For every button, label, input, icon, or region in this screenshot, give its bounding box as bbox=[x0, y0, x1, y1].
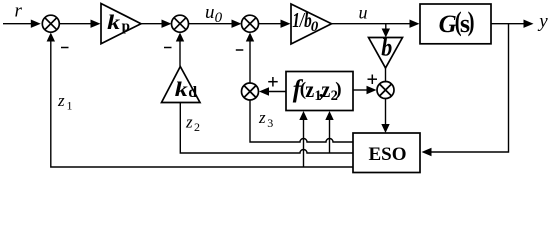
wire S1 to kp bbox=[59, 23, 91, 25]
wire z1 from ESO to S1 bbox=[51, 41, 353, 167]
wire S2 to S3 bbox=[189, 23, 233, 25]
svg-text:0: 0 bbox=[311, 19, 319, 35]
summing junction S4 bbox=[377, 82, 394, 99]
svg-text:r: r bbox=[15, 1, 23, 22]
wire kp to S2 bbox=[141, 23, 163, 25]
wire S5 up to S3 bbox=[249, 41, 251, 83]
plus sign at S5 bbox=[268, 77, 278, 87]
plus sign at S4 bbox=[368, 75, 378, 85]
svg-text:k: k bbox=[107, 10, 120, 34]
svg-text:z: z bbox=[321, 77, 330, 102]
wire feedback down from y branch bbox=[431, 24, 509, 152]
wire f to S5 bbox=[268, 91, 287, 93]
svg-text:ESO: ESO bbox=[369, 144, 407, 165]
block G(s) bbox=[420, 4, 491, 44]
svg-text:z: z bbox=[57, 91, 65, 110]
wire S4 down to ESO bbox=[385, 99, 387, 125]
wire r input bbox=[3, 23, 32, 25]
svg-text:z: z bbox=[185, 112, 193, 131]
block ESO bbox=[353, 133, 420, 173]
minus sign at S1 bbox=[61, 47, 69, 49]
svg-text:2: 2 bbox=[194, 120, 200, 134]
wire z2 riser into f bbox=[329, 120, 331, 154]
svg-text:1: 1 bbox=[67, 99, 73, 113]
gain block 1/b0 bbox=[291, 4, 332, 44]
svg-text:z: z bbox=[258, 108, 266, 127]
wire kd up to S2 bbox=[179, 41, 181, 67]
wire f to S4 bbox=[353, 89, 368, 91]
svg-text:y: y bbox=[537, 11, 548, 32]
summing junction S5 bbox=[242, 83, 259, 100]
svg-text:3: 3 bbox=[267, 116, 273, 130]
summing junction S3 bbox=[242, 15, 259, 32]
svg-text:): ) bbox=[468, 7, 475, 37]
summing junction S1 bbox=[42, 15, 59, 32]
svg-text:b: b bbox=[381, 34, 392, 61]
minus sign at S3 bbox=[236, 49, 244, 51]
summing junction S2 bbox=[172, 15, 189, 32]
gain block kp bbox=[101, 4, 141, 44]
minus sign at S2 bbox=[164, 47, 172, 49]
svg-text:d: d bbox=[188, 84, 197, 101]
wire b to S4 bbox=[385, 68, 387, 83]
svg-text:): ) bbox=[335, 79, 341, 100]
wire G(s) to y bbox=[491, 23, 525, 25]
svg-text:z: z bbox=[305, 77, 314, 102]
svg-text:u: u bbox=[359, 2, 368, 22]
wire z2 from ESO to kd bbox=[180, 103, 353, 154]
wire z3 from ESO to S5 bbox=[250, 100, 353, 142]
gain block kd bbox=[162, 67, 201, 103]
wire S3 to 1/b0 bbox=[259, 23, 282, 25]
svg-text:u: u bbox=[205, 2, 215, 23]
gain block b bbox=[369, 38, 403, 69]
wire 1/b0 to G(s) bbox=[332, 23, 411, 25]
svg-text:1/b: 1/b bbox=[292, 8, 312, 32]
svg-text:p: p bbox=[122, 18, 130, 34]
wire branch u down to b bbox=[385, 24, 387, 29]
block f(z1,z2) bbox=[286, 72, 353, 111]
wire z1 riser into f bbox=[303, 120, 305, 168]
svg-text:k: k bbox=[175, 77, 188, 101]
